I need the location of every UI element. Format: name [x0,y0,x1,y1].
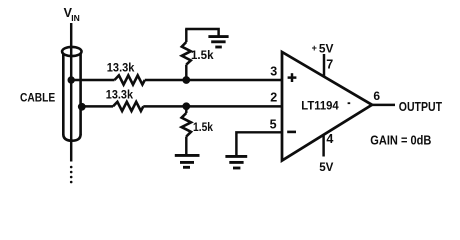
svg-text:GAIN = 0dB: GAIN = 0dB [370,134,431,148]
svg-text:5: 5 [270,118,277,132]
svg-text:5V: 5V [319,160,334,174]
svg-text:1.5k: 1.5k [191,48,214,62]
svg-text:IN: IN [71,13,80,23]
svg-text:13.3k: 13.3k [107,60,135,74]
svg-text:4: 4 [326,132,333,146]
svg-text:LT1194: LT1194 [301,99,339,113]
svg-text:6: 6 [373,89,380,103]
svg-text:7: 7 [326,58,333,72]
svg-text:13.3k: 13.3k [106,87,133,101]
svg-text:CABLE: CABLE [20,90,55,104]
svg-text:2: 2 [270,90,277,104]
svg-text:+: + [312,43,317,53]
svg-text:3: 3 [270,64,277,78]
svg-text:1.5k: 1.5k [193,120,213,134]
svg-text:OUTPUT: OUTPUT [399,100,443,114]
svg-text:5V: 5V [319,41,334,55]
